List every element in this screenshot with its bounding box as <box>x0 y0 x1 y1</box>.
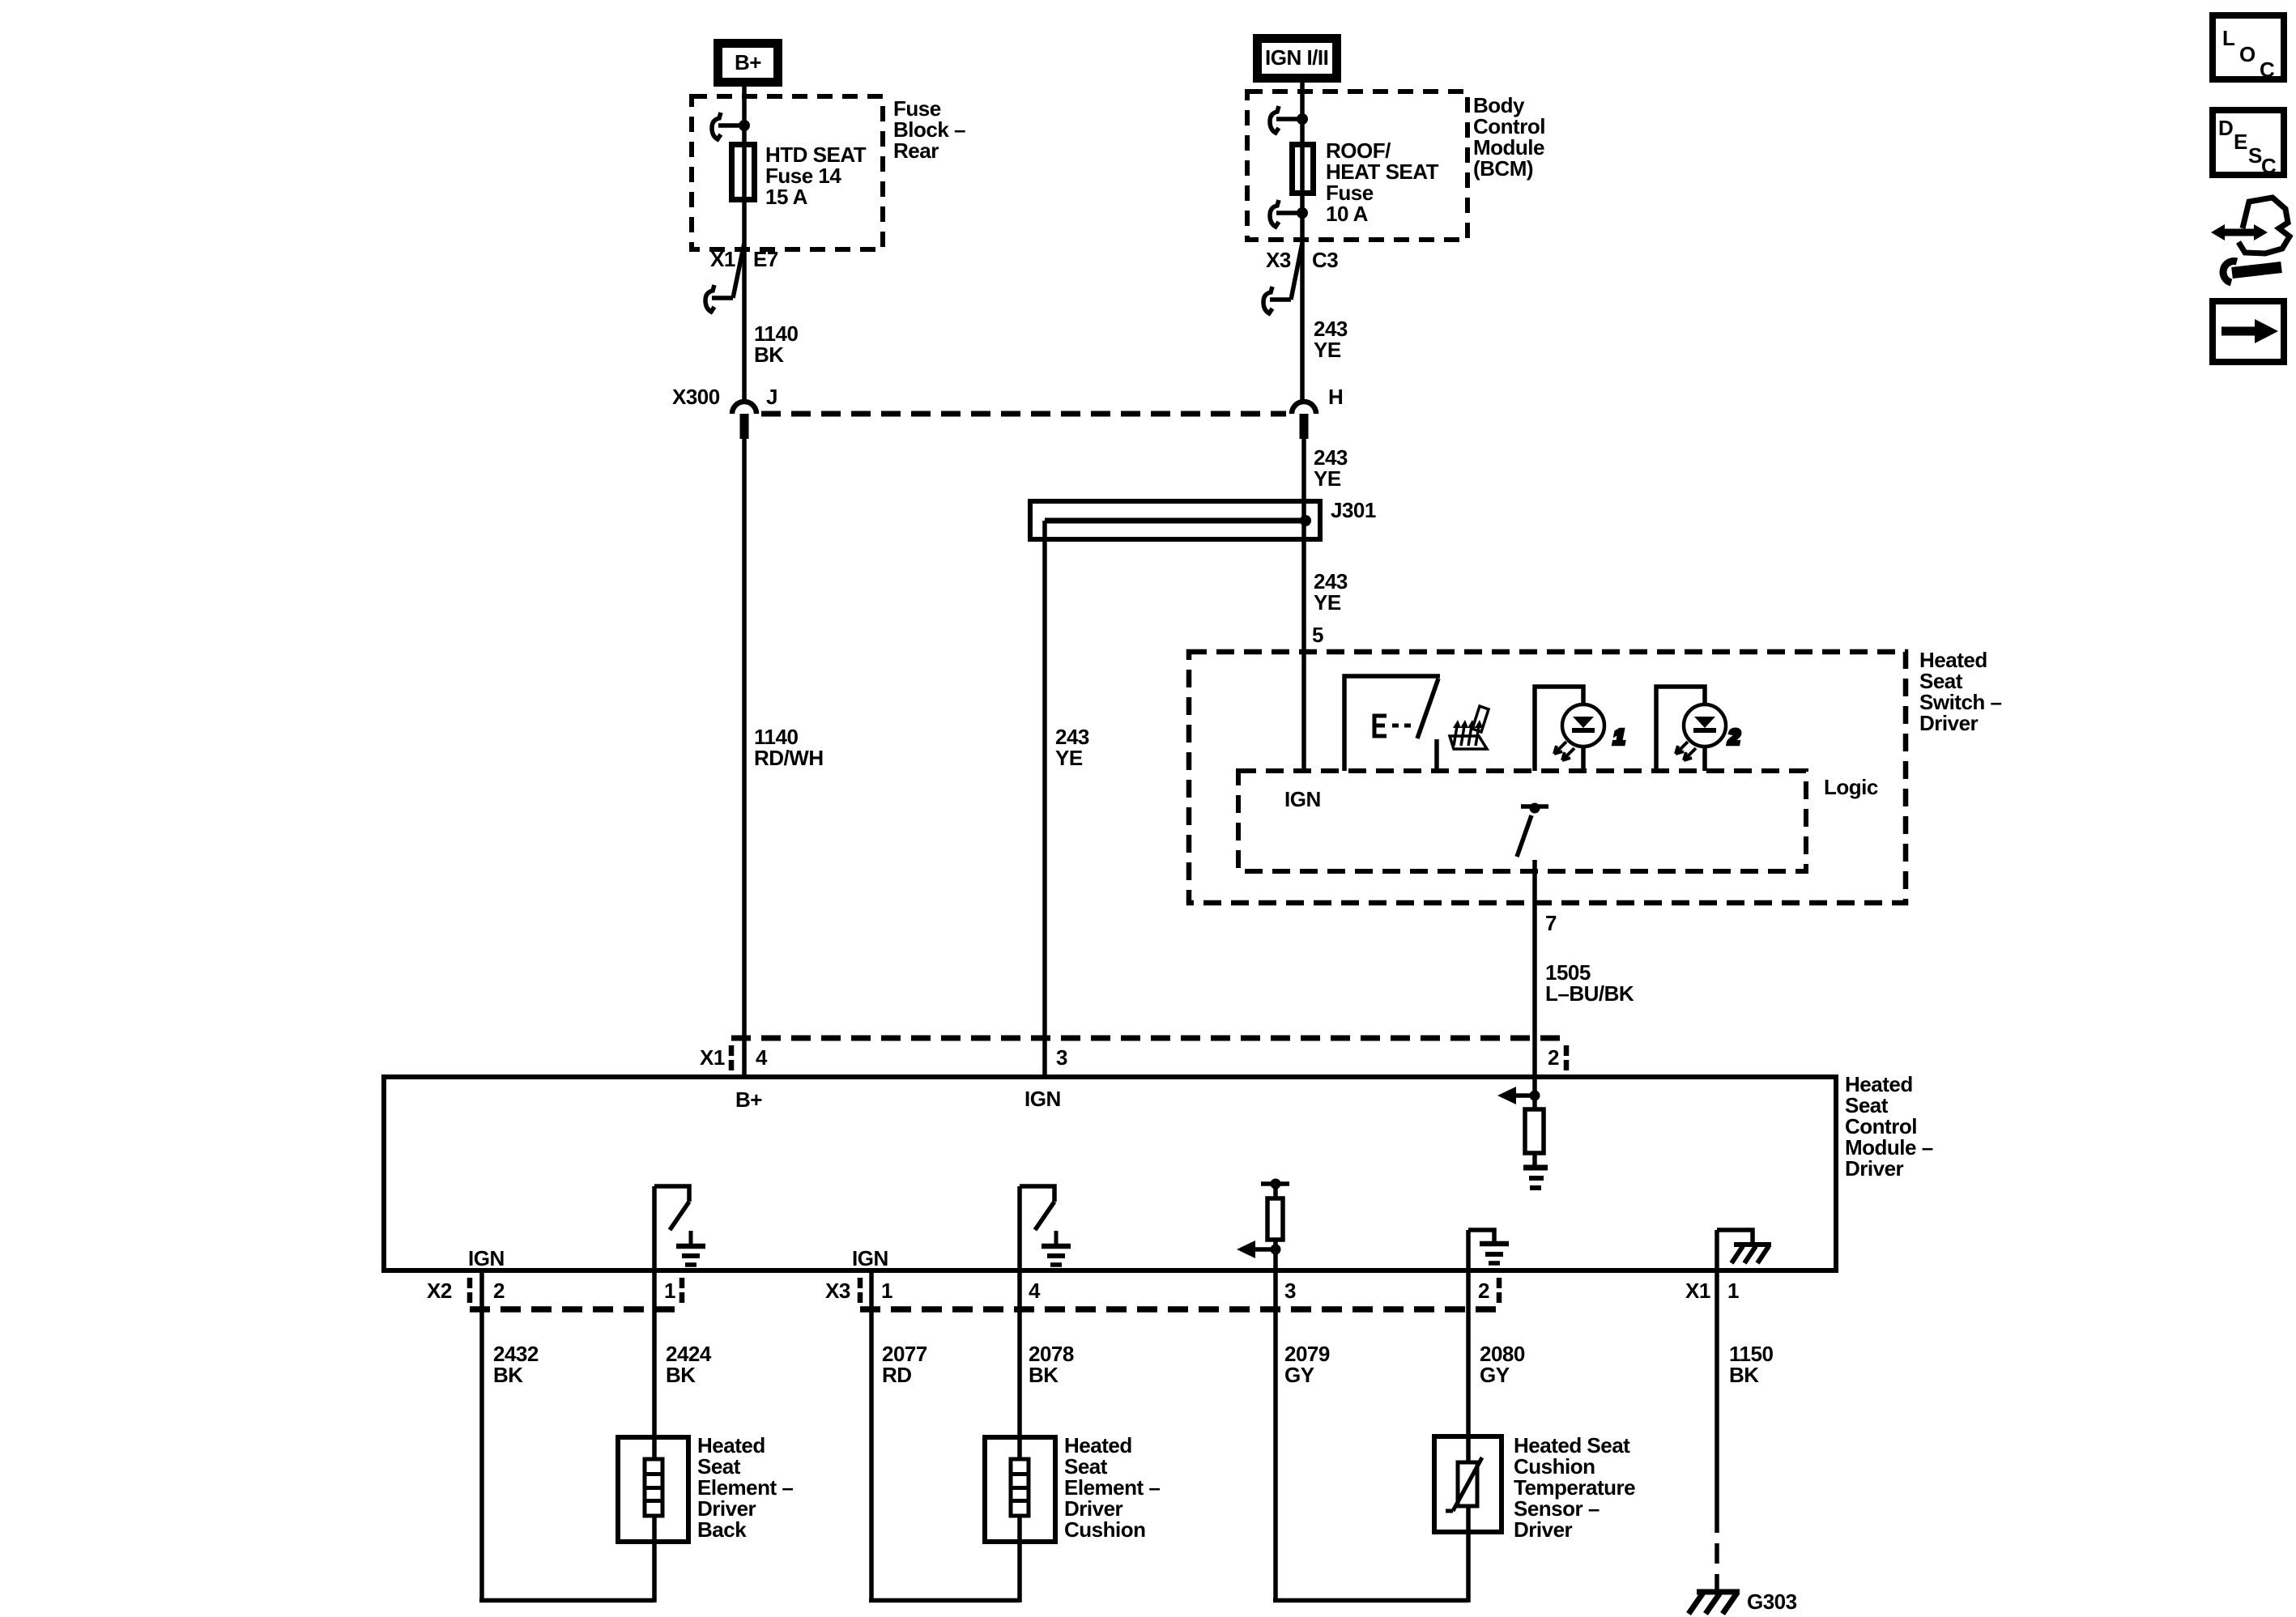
wire 2080 GY <box>1468 1270 1525 1602</box>
wire 1505 L-BU/BK to module pin 2 <box>1532 860 1537 1077</box>
svg-text:X1: X1 <box>700 1045 725 1070</box>
wire 2079 GY loop <box>1273 1270 1468 1602</box>
svg-text:3: 3 <box>1284 1279 1296 1303</box>
icon forward arrow <box>2213 301 2284 362</box>
svg-text:BK: BK <box>493 1363 523 1387</box>
label 1505 L-BU/BK <box>1545 960 1634 1006</box>
wire 2077 RD loop <box>869 1270 1020 1602</box>
svg-text:C3: C3 <box>1312 248 1338 272</box>
switch S1 momentary <box>1344 676 1440 771</box>
svg-text:Driver: Driver <box>1919 711 1979 735</box>
svg-text:RD/WH: RD/WH <box>754 746 824 770</box>
svg-text:C: C <box>2260 57 2275 82</box>
heated seat cushion temperature sensor driver <box>1434 1433 1635 1542</box>
svg-text:(BCM): (BCM) <box>1473 156 1533 181</box>
power symbol IGN I/II <box>1258 39 1337 79</box>
module internal: driver switch for back element <box>654 1186 705 1270</box>
heated seat control module box <box>384 1077 1836 1270</box>
icon LOC <box>2213 15 2284 82</box>
svg-text:X1: X1 <box>1685 1279 1710 1303</box>
connector X300 J H <box>672 385 1343 439</box>
power symbol B+ <box>718 44 778 83</box>
svg-text:L–BU/BK: L–BU/BK <box>1545 981 1634 1006</box>
svg-text:Rear: Rear <box>893 138 939 163</box>
wire 2432 BK loop <box>479 1270 654 1602</box>
svg-text:S: S <box>2248 143 2262 168</box>
heated seat icon <box>1450 706 1489 749</box>
fuse block rear dashed box <box>692 96 883 249</box>
svg-text:G303: G303 <box>1747 1589 1797 1614</box>
LED 1 <box>1535 687 1604 771</box>
svg-text:IGN: IGN <box>468 1246 505 1270</box>
svg-text:H: H <box>1328 385 1343 409</box>
svg-text:2: 2 <box>493 1279 505 1303</box>
svg-text:YE: YE <box>1314 466 1341 491</box>
module internal: sense arrow, resistor, ground at pin 2 <box>1497 1077 1548 1188</box>
connector X1 E7 <box>705 243 778 312</box>
svg-text:E: E <box>2234 130 2247 154</box>
svg-text:YE: YE <box>1314 338 1341 362</box>
wire 243 YE to J301 and switch <box>1301 439 1306 771</box>
svg-text:15 A: 15 A <box>765 185 808 209</box>
heated seat element driver back <box>618 1433 793 1542</box>
bottom connector X1 row <box>1685 1279 1739 1303</box>
svg-text:1: 1 <box>664 1279 675 1303</box>
svg-text:GY: GY <box>1284 1363 1314 1387</box>
label Body Control Module (BCM) <box>1473 93 1545 181</box>
svg-text:BK: BK <box>1729 1363 1759 1387</box>
svg-text:BK: BK <box>666 1363 696 1387</box>
fuse ROOF/HEAT SEAT Fuse 10 A <box>1293 138 1439 226</box>
label Fuse Block - Rear <box>893 96 965 163</box>
svg-text:1: 1 <box>1727 1279 1739 1303</box>
svg-text:RD: RD <box>882 1363 912 1387</box>
module internal: pullup resistor and sense arrow at pin 3 <box>1237 1179 1289 1271</box>
module internal: driver switch for cushion element <box>1020 1186 1071 1270</box>
svg-text:GY: GY <box>1480 1363 1510 1387</box>
svg-text:BK: BK <box>1029 1363 1059 1387</box>
module internal: signal ground at pin 2 bottom <box>1468 1230 1509 1270</box>
body control module dashed box <box>1247 91 1467 240</box>
svg-text:7: 7 <box>1545 911 1557 935</box>
svg-text:X3: X3 <box>825 1279 850 1303</box>
svg-text:2: 2 <box>1548 1045 1559 1070</box>
ground G303 <box>1689 1589 1797 1614</box>
svg-text:Logic: Logic <box>1824 775 1878 799</box>
svg-text:2: 2 <box>1478 1279 1489 1303</box>
connector clip BCM top <box>1270 106 1308 133</box>
label Heated Seat Control Module - Driver <box>1845 1072 1933 1181</box>
svg-text:Cushion: Cushion <box>1064 1517 1146 1542</box>
svg-text:4: 4 <box>1029 1279 1041 1303</box>
svg-text:X3: X3 <box>1266 248 1291 272</box>
label 243 YE below J301 <box>1314 569 1348 615</box>
connector clip BCM below fuse <box>1270 200 1308 227</box>
heated seat switch driver dashed box <box>1189 652 1906 903</box>
branch wire 243 YE from J301 to module pin 3 <box>1042 521 1047 1077</box>
svg-text:YE: YE <box>1314 590 1341 615</box>
wire 1140 BK from B+ through fuse to X300 <box>742 83 747 402</box>
svg-text:1: 1 <box>881 1279 892 1303</box>
wire 243 YE from IGN through BCM fuse <box>1300 78 1305 402</box>
wire 2078 BK <box>1020 1270 1074 1602</box>
svg-text:X2: X2 <box>427 1279 452 1303</box>
svg-text:C: C <box>2261 154 2277 178</box>
bottom connector X2 row <box>427 1278 682 1309</box>
svg-text:J301: J301 <box>1331 498 1376 522</box>
svg-text:IGN I/II: IGN I/II <box>1265 45 1328 70</box>
label 243 YE upper <box>1314 317 1348 362</box>
svg-text:L: L <box>2222 26 2235 50</box>
svg-text:YE: YE <box>1055 746 1083 770</box>
bottom connector X3 row <box>825 1278 1499 1309</box>
svg-text:X300: X300 <box>672 385 720 409</box>
svg-text:D: D <box>2218 116 2233 140</box>
connector X3 C3 <box>1263 243 1338 313</box>
LED 2 <box>1656 687 1726 771</box>
wire 2424 BK <box>654 1270 712 1602</box>
svg-text:Back: Back <box>697 1517 747 1542</box>
svg-text:Driver: Driver <box>1514 1517 1573 1542</box>
svg-text:IGN: IGN <box>1284 787 1321 811</box>
svg-text:X1: X1 <box>710 247 735 271</box>
svg-text:J: J <box>766 385 777 409</box>
splice J301 <box>1030 498 1376 539</box>
logic output tap switch <box>1517 803 1548 857</box>
svg-text:4: 4 <box>756 1045 768 1070</box>
icon diagnostic arrows and wrench <box>2211 198 2290 283</box>
wire 1150 BK to ground <box>1717 1270 1773 1589</box>
svg-text:2: 2 <box>1727 725 1740 749</box>
label 243 YE branch <box>1055 725 1089 770</box>
module top connector X1 row <box>700 1038 1566 1070</box>
heated seat element driver cushion <box>985 1433 1160 1542</box>
icon DESC <box>2213 110 2284 178</box>
svg-text:1: 1 <box>1613 725 1625 749</box>
label 1140 RD/WH <box>754 725 824 770</box>
svg-text:O: O <box>2239 42 2256 66</box>
svg-text:B+: B+ <box>735 1087 762 1112</box>
label 1140 BK <box>754 321 798 367</box>
fuse HTD SEAT Fuse 14 15 A <box>732 143 867 209</box>
svg-text:BK: BK <box>754 343 784 367</box>
svg-text:3: 3 <box>1056 1045 1067 1070</box>
svg-text:IGN: IGN <box>1024 1087 1061 1111</box>
svg-text:Driver: Driver <box>1845 1156 1904 1181</box>
svg-text:E7: E7 <box>753 247 778 271</box>
svg-text:5: 5 <box>1312 623 1323 647</box>
svg-text:IGN: IGN <box>852 1246 888 1270</box>
logic dashed box <box>1238 771 1806 871</box>
svg-text:10 A: 10 A <box>1326 202 1369 226</box>
connector clip at fuse block feed <box>712 113 750 139</box>
svg-text:B+: B+ <box>735 50 761 74</box>
label Heated Seat Switch - Driver <box>1919 648 2002 735</box>
module internal: chassis ground at pin X1-1 <box>1717 1230 1771 1270</box>
wire B+ feed to module pin 4 <box>742 439 747 1077</box>
label 243 YE above J301 <box>1314 445 1348 491</box>
